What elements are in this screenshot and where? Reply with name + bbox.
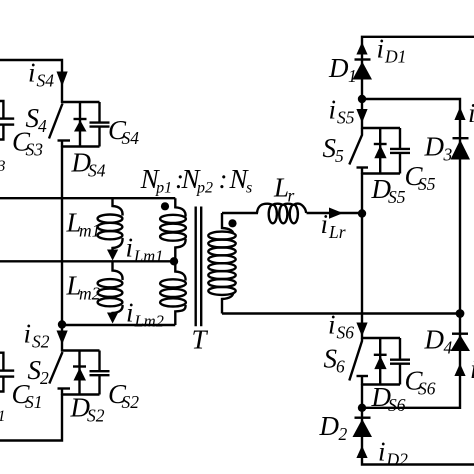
current arrow iD4 [454,364,465,377]
inductor Lm2 [98,261,123,314]
diode DS2 [73,351,86,395]
node polarity dot primary [161,202,169,210]
node D3/D4 midpoint junction [456,309,465,318]
wire junction to S5 [361,99,363,129]
wire secondary bottom to D3/D4 midpoint [222,312,460,314]
switch S5 [349,128,400,174]
current arrow iLm2 [107,313,118,324]
wire S2 bottom to left edge [0,395,62,441]
inductor Lr [257,204,306,224]
diode DS4 [74,102,87,147]
svg-text:T: T [192,325,209,355]
wire D2 to bottom rail [362,408,474,465]
wire S5 bottom to iLr junction [361,174,363,214]
switch S2 [49,351,99,396]
diode D4 [451,334,471,351]
current arrow iLr [329,208,343,219]
wire rail1 [0,197,175,199]
current arrow iLm1 [107,250,118,261]
wire secondary top to Lr [222,212,258,214]
wire top-left horizontal into S4 leg [0,60,62,103]
current arrow iD2 [356,446,367,459]
wire rail3 [62,324,175,326]
transformer secondary winding Ns [208,213,235,314]
wire D1 junction across to D3 branch [362,99,460,314]
capacitor CS6 [390,338,410,385]
wire rail2 [0,260,175,262]
svg-text:1: 1 [0,408,6,425]
transformer primary winding Np1 [160,198,186,261]
transformer core [196,207,202,327]
node rail3 left junction [58,320,66,328]
node iLr junction [358,209,366,217]
svg-text:iD3: iD3 [468,98,474,131]
node polarity dot secondary [228,219,236,227]
svg-text::: : [219,164,228,194]
current arrow iS4 [57,72,68,87]
svg-text:iD4: iD4 [470,354,474,387]
diode D2 [353,418,373,437]
current arrow iS6 [356,323,367,337]
current arrow iD3 [454,107,465,120]
node S6/D2 junction [358,404,366,412]
node D1 bottom junction [358,95,366,103]
inductor Lm1 [98,198,123,250]
svg-text:3: 3 [0,158,6,175]
wire S6 bottom to D2 junction [361,385,363,409]
diode D1 [353,60,373,80]
current arrow iD1 [356,42,367,55]
capacitor CS1 (partial, left edge) [0,353,14,392]
wire D2 junction to D4 branch bottom [362,314,460,408]
current arrow iS2 [57,331,68,345]
diode D3 [451,138,471,159]
diode DS6 [374,338,387,385]
capacitor CS5 [390,128,410,174]
wire Lr to S5/S6 midpoint [307,212,363,214]
label Np1:Np2:Ns [140,164,253,197]
switch S6 [349,338,400,385]
current arrow iS5 [356,109,367,123]
capacitor CS4 [90,102,110,147]
wire top rail [362,37,474,99]
capacitor CS3 (partial, left edge) [0,101,14,140]
wire iLr junction down to S6 [361,214,363,339]
node rail2-primary junction [170,257,178,265]
transformer primary winding Np2 [160,261,186,325]
diode DS5 [374,128,387,174]
switch S4 [49,102,100,147]
wire junction to S2 [61,325,63,352]
wire S4 leg down to rail3 junction [61,147,63,326]
capacitor CS2 [90,351,110,395]
